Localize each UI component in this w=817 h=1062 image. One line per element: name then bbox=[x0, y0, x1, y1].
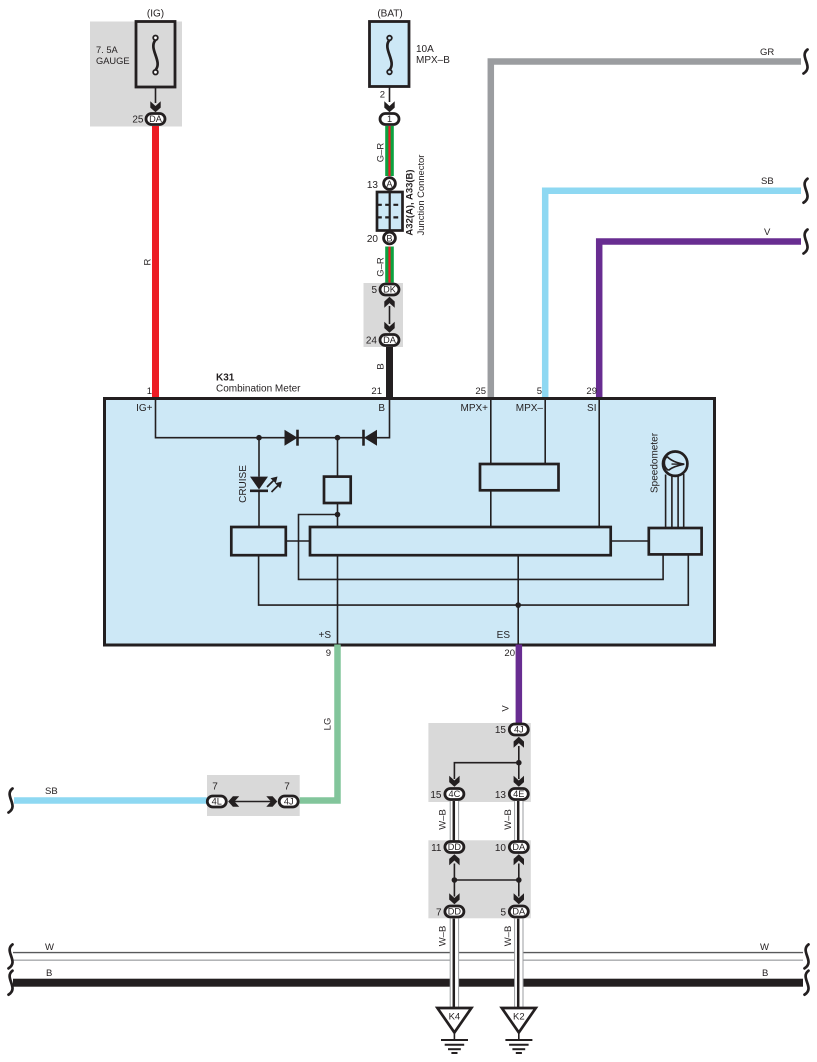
arrow into connector 1 bbox=[384, 101, 394, 112]
node on IG+ line bbox=[256, 435, 262, 441]
ground point K4 bbox=[437, 1008, 471, 1053]
arrow up into DD bbox=[449, 854, 459, 865]
connector 4E pin 13 bbox=[495, 789, 528, 802]
svg-text:K2: K2 bbox=[513, 1012, 525, 1023]
wire node to 4C branch bbox=[454, 763, 518, 779]
break squiggle GR bbox=[804, 50, 808, 74]
wire small box to node bbox=[337, 503, 339, 527]
svg-text:V: V bbox=[501, 705, 512, 712]
break squiggle B right bbox=[805, 971, 809, 995]
svg-text:7: 7 bbox=[436, 908, 442, 919]
svg-text:20: 20 bbox=[367, 234, 379, 245]
wire branch to small box bbox=[337, 438, 339, 477]
svg-text:Junction Connector: Junction Connector bbox=[415, 155, 426, 236]
arrow down into 4C bbox=[449, 776, 459, 787]
wire ES internal bbox=[517, 555, 519, 644]
svg-text:CRUISE: CRUISE bbox=[238, 465, 249, 503]
svg-text:W–B: W–B bbox=[503, 809, 514, 830]
internal bus bar box U3 bbox=[310, 527, 611, 555]
svg-text:W–B: W–B bbox=[438, 926, 449, 947]
wire node to DA pin5 bbox=[518, 880, 520, 897]
wire G-R (green/red) connector 1 to junction A bbox=[385, 126, 394, 176]
connector 4J pin 15 bbox=[495, 724, 528, 736]
wire W-B DA to ground K2 bbox=[515, 919, 523, 1009]
wire fuse IG to connector DA bbox=[155, 87, 157, 103]
wire node to 4E branch bbox=[518, 763, 520, 779]
svg-text:7: 7 bbox=[284, 782, 290, 793]
DK/DA shield (grey background box) bbox=[364, 283, 404, 347]
arrow down into 4E bbox=[514, 776, 524, 787]
arrow up into DA bbox=[514, 854, 524, 865]
svg-text:SB: SB bbox=[45, 786, 58, 797]
svg-text:4J: 4J bbox=[514, 725, 524, 735]
wire 4J to node bbox=[518, 746, 520, 763]
svg-text:K4: K4 bbox=[449, 1012, 461, 1023]
svg-text:29: 29 bbox=[586, 386, 597, 397]
ground point K2 bbox=[502, 1008, 536, 1053]
wire V (violet) ES pin 20 to 4J bbox=[516, 645, 523, 724]
svg-text:W: W bbox=[760, 942, 769, 953]
connector 4C pin 15 bbox=[430, 789, 464, 802]
svg-text:5: 5 bbox=[371, 285, 377, 296]
wire left box to lower bus bbox=[259, 554, 689, 605]
svg-text:MPX+: MPX+ bbox=[460, 403, 488, 414]
arrow down into DD pin7 bbox=[449, 893, 459, 904]
wire SB (light blue) to MPX- pin 5 bbox=[545, 191, 801, 399]
wire SI internal bbox=[598, 400, 600, 527]
svg-text:2: 2 bbox=[380, 90, 385, 101]
wire DD to node bbox=[453, 864, 455, 881]
node split bbox=[516, 760, 522, 766]
connector DD pin 7 bbox=[436, 906, 464, 919]
connector 1 bbox=[380, 114, 399, 125]
break squiggle V bbox=[804, 230, 808, 254]
arrow down into DA bbox=[384, 322, 394, 333]
wire LED branch bbox=[258, 438, 260, 477]
connector DK pin 5 bbox=[371, 284, 399, 296]
diode D2 bbox=[364, 430, 378, 446]
svg-text:10: 10 bbox=[495, 843, 507, 854]
svg-text:MPX–: MPX– bbox=[516, 403, 544, 414]
wire MPX- internal bbox=[544, 400, 546, 464]
wire MPX+ internal bbox=[490, 400, 492, 464]
svg-text:25: 25 bbox=[132, 115, 144, 126]
svg-text:MPX–B: MPX–B bbox=[416, 55, 450, 66]
wire DA to node bbox=[518, 864, 520, 881]
svg-text:4J: 4J bbox=[284, 797, 294, 807]
svg-text:B: B bbox=[375, 363, 386, 369]
break squiggle SB left bbox=[9, 789, 13, 813]
wire LG (light green) +S pin 9 to 4J bbox=[299, 645, 338, 801]
arrow into DA bbox=[150, 101, 160, 112]
svg-text:SB: SB bbox=[761, 176, 774, 187]
svg-text:V: V bbox=[764, 227, 771, 238]
wire R (red) DA to IG+ pin 1 bbox=[152, 126, 159, 399]
svg-text:SI: SI bbox=[587, 403, 596, 414]
wire LED to resistor box bbox=[258, 491, 260, 528]
svg-text:4L: 4L bbox=[212, 797, 222, 807]
svg-text:B: B bbox=[46, 968, 52, 979]
speedometer gauge bbox=[663, 452, 687, 476]
svg-text:DK: DK bbox=[383, 285, 397, 295]
wire fuse BAT pin 2 to connector 1 bbox=[389, 87, 391, 103]
wire W-B 4E to DA bbox=[515, 801, 523, 841]
svg-text:W: W bbox=[45, 942, 54, 953]
svg-text:ES: ES bbox=[497, 630, 511, 641]
svg-text:1: 1 bbox=[387, 114, 392, 124]
wire DK to DA bbox=[389, 306, 391, 324]
svg-text:B: B bbox=[762, 968, 768, 979]
svg-text:(IG): (IG) bbox=[147, 9, 164, 20]
svg-text:A: A bbox=[386, 179, 393, 189]
wire V (violet) to SI pin 29 bbox=[599, 242, 801, 399]
junction terminal B pin 20 bbox=[367, 232, 396, 245]
junction terminal A pin 13 bbox=[367, 178, 396, 191]
node on ES line bbox=[515, 602, 521, 608]
diode D1 bbox=[285, 430, 298, 446]
wire B (black) DA to pin 21 bbox=[386, 347, 393, 399]
internal small box U1 bbox=[324, 477, 351, 503]
svg-text:15: 15 bbox=[430, 790, 442, 801]
fuse 10A MPX-B (BAT) bbox=[370, 9, 451, 87]
connector 4J pin 7 bbox=[279, 782, 298, 808]
svg-text:13: 13 bbox=[495, 790, 507, 801]
svg-text:9: 9 bbox=[326, 648, 331, 659]
svg-text:13: 13 bbox=[367, 180, 379, 191]
svg-text:DD: DD bbox=[448, 907, 462, 917]
svg-text:15: 15 bbox=[495, 725, 507, 736]
svg-text:A32(A), A33(B): A32(A), A33(B) bbox=[405, 169, 416, 235]
combination meter K31 box bbox=[105, 399, 715, 646]
node DD bbox=[452, 877, 458, 883]
wire W-B 4C to DD bbox=[450, 801, 458, 841]
svg-text:DA: DA bbox=[512, 907, 526, 917]
svg-text:10A: 10A bbox=[416, 44, 434, 55]
connector 4L pin 7 bbox=[207, 782, 226, 808]
connector DA pin 10 bbox=[495, 842, 528, 855]
arrow up into DK bbox=[384, 297, 394, 308]
connector DA pin 25 bbox=[132, 114, 165, 126]
connector DA pin 5 bbox=[500, 906, 528, 919]
svg-text:5: 5 bbox=[537, 386, 542, 397]
wire IG+ internal bbox=[156, 400, 390, 438]
svg-text:(BAT): (BAT) bbox=[377, 9, 402, 20]
arrow down into DA pin5 bbox=[514, 893, 524, 904]
svg-text:11: 11 bbox=[431, 843, 442, 854]
svg-text:Speedometer: Speedometer bbox=[650, 432, 661, 493]
svg-text:24: 24 bbox=[366, 336, 378, 347]
internal MPX transceiver box U4 bbox=[480, 464, 559, 490]
svg-text:5: 5 bbox=[500, 908, 506, 919]
junction connector A32(A), A33(B) bbox=[377, 155, 426, 236]
4L/4J shield (grey background box) bbox=[207, 775, 300, 816]
svg-text:25: 25 bbox=[475, 386, 486, 397]
wire left box to bus bar bbox=[286, 540, 310, 542]
wire bus bar to speedometer box bbox=[611, 540, 649, 542]
LED CRUISE indicator bbox=[250, 477, 282, 493]
svg-text:DD: DD bbox=[448, 842, 462, 852]
wire MPX box to bus bar bbox=[490, 490, 492, 527]
break squiggle W right bbox=[805, 944, 809, 968]
svg-text:W–B: W–B bbox=[438, 809, 449, 830]
wire node to DD pin7 bbox=[453, 880, 455, 897]
4J/4C/4E shield (grey background box) bbox=[428, 723, 530, 802]
svg-text:Combination Meter: Combination Meter bbox=[216, 384, 301, 395]
svg-text:R: R bbox=[143, 258, 154, 265]
svg-text:GAUGE: GAUGE bbox=[96, 56, 130, 66]
wire W-B DD to ground K4 bbox=[450, 919, 458, 1009]
svg-text:7: 7 bbox=[212, 782, 218, 793]
svg-text:GR: GR bbox=[760, 47, 774, 58]
bus B (black wire) bbox=[13, 979, 803, 987]
arrow up into 4J bbox=[514, 737, 524, 748]
node below small box bbox=[335, 512, 341, 518]
connector DA pin 24 bbox=[366, 335, 399, 347]
svg-text:W–B: W–B bbox=[503, 926, 514, 947]
svg-text:G–R: G–R bbox=[376, 143, 387, 163]
svg-text:1: 1 bbox=[147, 386, 152, 397]
svg-text:7. 5A: 7. 5A bbox=[96, 45, 119, 55]
svg-text:B: B bbox=[386, 233, 392, 243]
wire +S internal bbox=[337, 555, 339, 644]
svg-text:DA: DA bbox=[149, 114, 163, 124]
internal left box U2 bbox=[231, 527, 285, 555]
wire SB (light blue) to 4L bbox=[14, 797, 212, 804]
wire GR (gray) to MPX+ pin 25 bbox=[491, 62, 801, 399]
DD/DA shield (grey background box) bbox=[428, 840, 530, 918]
wire G-R junction B to connector DK bbox=[385, 247, 394, 283]
bus W (white wire) bbox=[13, 953, 803, 961]
svg-text:B: B bbox=[378, 403, 385, 414]
wire node to node bbox=[454, 879, 518, 881]
break squiggle B left bbox=[9, 971, 13, 995]
IG fuse shield (grey background box) bbox=[90, 22, 182, 127]
svg-text:+S: +S bbox=[318, 630, 331, 641]
break squiggle SB bbox=[804, 179, 808, 203]
internal speedometer driver box U5 bbox=[649, 528, 702, 554]
wire 4L to 4J with arrows bbox=[228, 796, 277, 806]
svg-text:LG: LG bbox=[323, 718, 334, 731]
svg-text:20: 20 bbox=[504, 648, 515, 659]
wires speedometer 4 lines bbox=[666, 474, 684, 528]
svg-text:DA: DA bbox=[512, 842, 526, 852]
connector DD pin 11 bbox=[431, 842, 464, 855]
break squiggle W left bbox=[9, 944, 13, 968]
svg-text:IG+: IG+ bbox=[136, 403, 153, 414]
svg-text:4C: 4C bbox=[449, 789, 461, 799]
svg-text:DA: DA bbox=[383, 335, 397, 345]
svg-text:21: 21 bbox=[371, 386, 382, 397]
svg-text:4E: 4E bbox=[513, 789, 524, 799]
node at small box branch bbox=[335, 435, 341, 441]
svg-text:G–R: G–R bbox=[376, 257, 387, 277]
node DA bbox=[516, 877, 522, 883]
fuse 7.5A GAUGE (IG) bbox=[96, 9, 175, 88]
wire node left branch bbox=[299, 515, 664, 580]
svg-text:K31: K31 bbox=[216, 373, 235, 384]
